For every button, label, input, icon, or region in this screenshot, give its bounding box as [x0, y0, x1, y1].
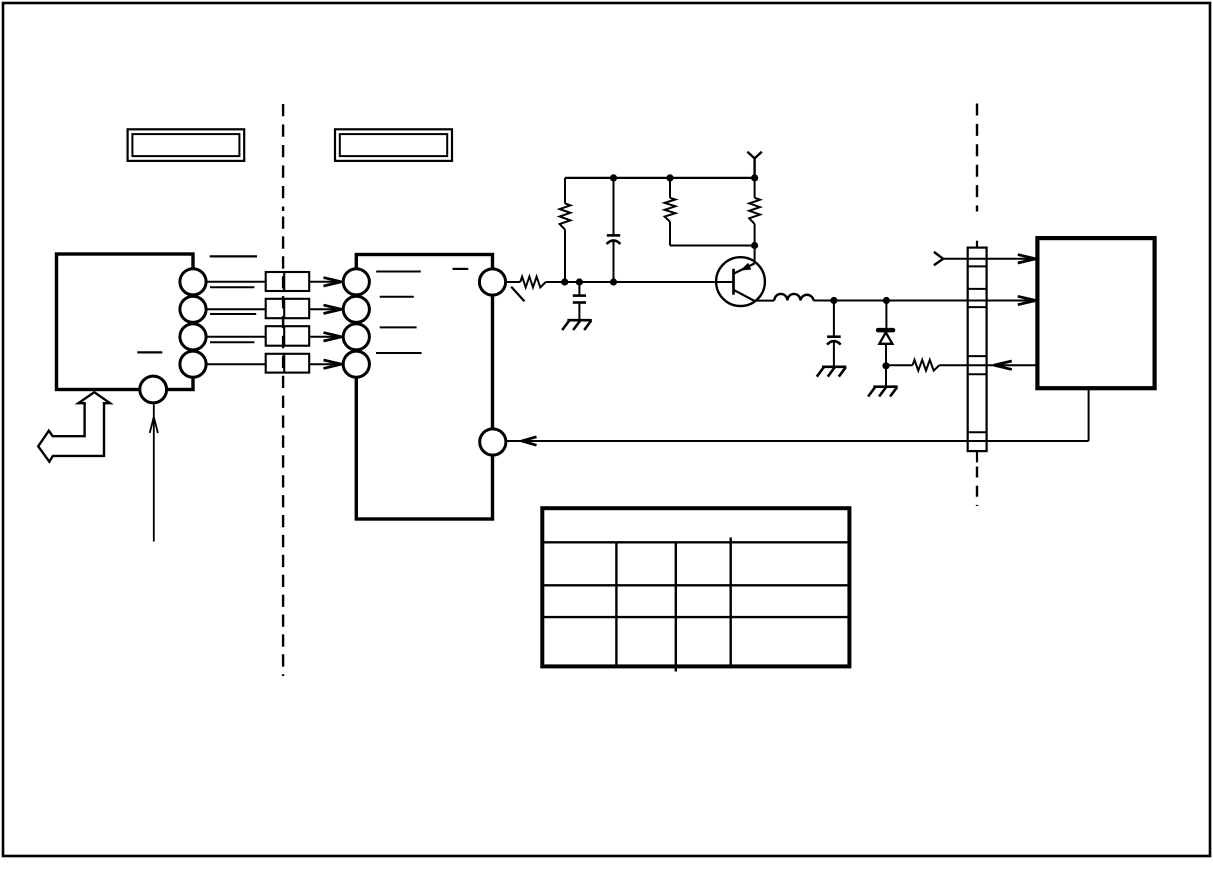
- junction node: [830, 297, 837, 304]
- zener diode D1: [885, 301, 887, 329]
- wire: left block pin 2 to connector: [206, 308, 266, 310]
- resistor R1 (rail to base node): [564, 178, 566, 204]
- pin circle left block 2: [180, 296, 206, 322]
- wire: left block pin 3 to connector: [206, 336, 266, 338]
- label line inside main block 2: [380, 296, 414, 298]
- label line inside main block 1: [376, 271, 421, 273]
- pin circle left block bottom: [140, 376, 167, 403]
- pin circle main block output (RF): [479, 269, 505, 295]
- wire: zener node to resistor: [886, 364, 913, 366]
- pin circle left block 1: [180, 269, 206, 295]
- block: left unit: [57, 254, 194, 390]
- chevron input mark: [934, 252, 943, 259]
- resistor R3 (rail to emitter): [754, 178, 756, 198]
- transistor Q1 emitter lead: [754, 246, 756, 264]
- pin circle left block 3: [180, 324, 206, 350]
- wire: base line: [546, 281, 734, 283]
- antenna symbol: [753, 158, 755, 178]
- label line inside main block 3: [380, 326, 417, 328]
- signal label line 3: [210, 341, 254, 343]
- ground under C3: [822, 365, 846, 368]
- junction node: [883, 297, 890, 304]
- wire: input to connector: [943, 258, 968, 260]
- arrow into main block lower pin: [522, 437, 537, 441]
- junction node on rail: [751, 174, 758, 181]
- signal label line 1: [210, 286, 254, 288]
- transistor Q1 bar: [732, 269, 735, 295]
- resistor R2 (rail to feedback): [669, 178, 671, 198]
- ground under C2: [567, 319, 591, 322]
- transistor Q1 collector lead: [734, 290, 754, 301]
- wire with arrow: connector to main block pin 1: [309, 281, 342, 283]
- junction node on rail: [666, 174, 673, 181]
- pin circle left block 4: [180, 351, 206, 377]
- wire with arrow: connector to right block (top): [968, 258, 1038, 260]
- block: right unit: [1037, 238, 1154, 388]
- boundary centerline left (dash-dot): [282, 104, 284, 211]
- capacitor C1 (rail to base node): [613, 178, 615, 236]
- wire with arrow: connector to main block pin 2: [309, 308, 342, 310]
- wire with arrow: RF line to right block: [968, 300, 1038, 302]
- wire: left block pin 1 to connector: [206, 281, 266, 283]
- pin circle main block left 1: [343, 269, 369, 295]
- signal label line 2: [210, 313, 256, 315]
- pin circle main block feedback: [480, 429, 506, 455]
- ground under D1: [873, 385, 897, 388]
- wire: right block bottom feedback elbow: [1088, 388, 1090, 441]
- wire: RF output line: [814, 300, 968, 302]
- wire: pin to base resistor: [506, 281, 521, 283]
- pin circle main block left 3: [343, 324, 369, 350]
- slash mark at RF pin: [511, 287, 524, 302]
- inductor L1 (collector choke): [774, 294, 813, 301]
- pin circle main block left 4: [343, 351, 369, 377]
- boundary centerline right upper (dash-dot): [976, 104, 978, 212]
- transistor Q1 body circle: [716, 257, 765, 306]
- connector J1 (board-to-board, 4 cells x 2): [266, 272, 310, 291]
- resistor R4 (base series): [520, 277, 545, 288]
- block: main unit: [356, 255, 492, 520]
- wire: supply rail: [565, 177, 755, 179]
- arrow into connector (pointing left): [994, 361, 1012, 365]
- wire: control line into connector: [939, 364, 1037, 366]
- capacitor C2 (base node to ground): [578, 282, 580, 296]
- junction node: [610, 278, 617, 285]
- label line above left block: [210, 255, 257, 257]
- connector J2 (inter-unit strip): [968, 248, 987, 452]
- label dash inside left block: [137, 351, 162, 353]
- wire: R2 bottom to emitter node: [670, 245, 755, 247]
- junction node emitter top: [751, 242, 758, 249]
- title box right (double outline): [335, 129, 452, 161]
- table (parts list): [542, 508, 849, 666]
- junction node: [576, 278, 583, 285]
- wire with arrow: connector to main block pin 4: [309, 363, 342, 365]
- junction node zener anode: [882, 362, 889, 369]
- pin circle main block left 2: [343, 296, 369, 322]
- transistor Q1 emitter arrow (filled): [740, 263, 751, 271]
- resistor R5 (control line): [913, 360, 940, 371]
- junction node on rail: [610, 174, 617, 181]
- junction node: [561, 278, 568, 285]
- boundary centerline right lower: [976, 467, 978, 507]
- capacitor C3 (output to ground): [833, 301, 835, 336]
- label line inside main block 4: [376, 352, 422, 354]
- wire: left block pin 4 to connector: [206, 363, 266, 365]
- wire with arrow: connector to main block pin 3: [309, 336, 342, 338]
- hollow bent arrow (up/left) at left block bottom: [38, 392, 110, 461]
- label dash top-right of main block: [453, 268, 469, 270]
- title box left (double outline): [128, 129, 245, 161]
- arrow line into bottom pin circle: [153, 405, 155, 542]
